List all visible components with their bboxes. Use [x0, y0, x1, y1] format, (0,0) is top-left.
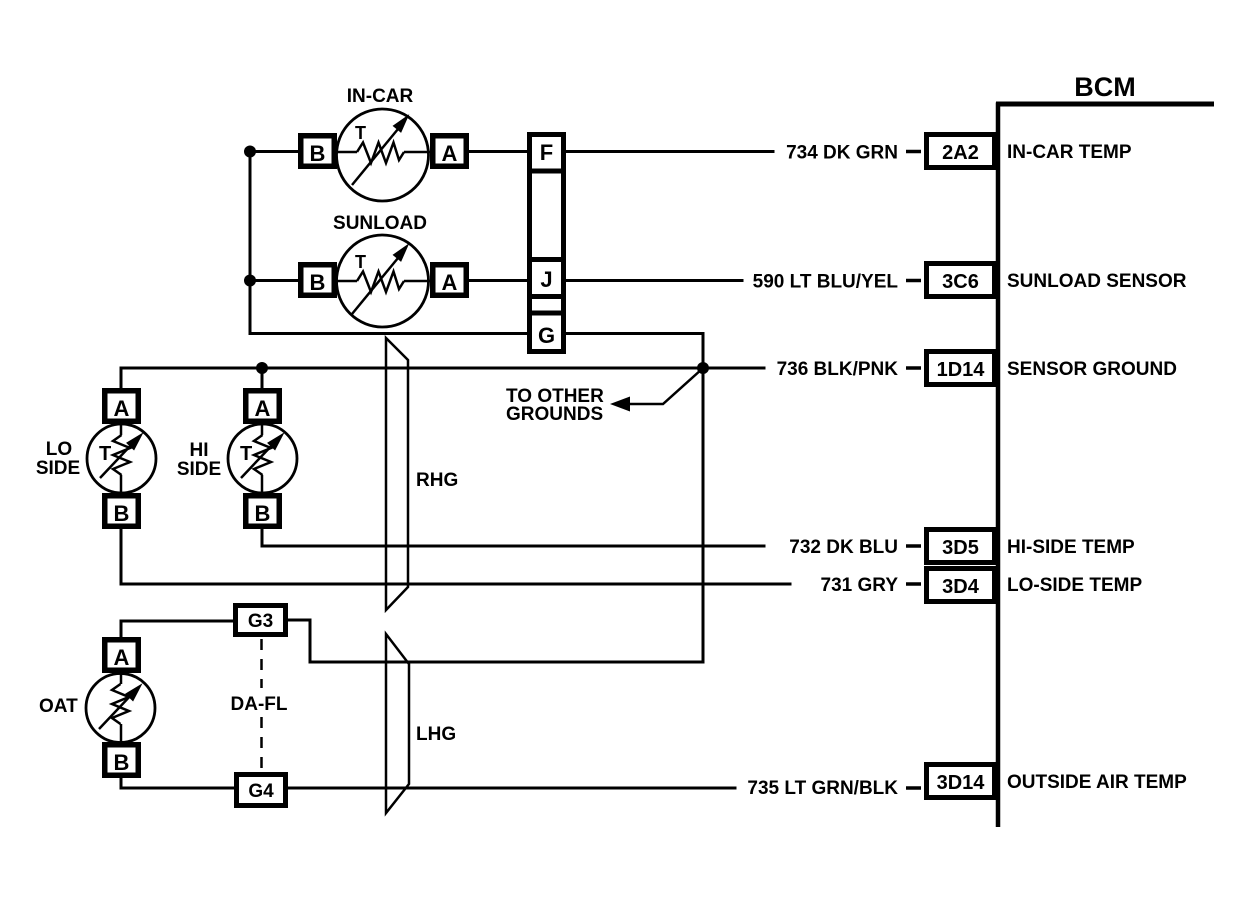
grommet RHG	[386, 338, 458, 610]
svg-text:590 LT BLU/YEL: 590 LT BLU/YEL	[753, 272, 899, 293]
svg-text:3C6: 3C6	[942, 271, 979, 293]
svg-text:SENSOR GROUND: SENSOR GROUND	[1007, 359, 1177, 380]
junction: sensor ground bus / ground drop	[697, 362, 709, 374]
wire: OAT pin A up to splice G3	[121, 621, 235, 639]
svg-text:OUTSIDE AIR TEMP: OUTSIDE AIR TEMP	[1007, 772, 1187, 793]
terminal A of SUNLOAD sensor	[433, 265, 467, 296]
wire: ground bus from IN-CAR B down to connector G	[250, 152, 527, 334]
svg-text:T: T	[355, 123, 366, 143]
svg-text:J: J	[540, 267, 552, 292]
svg-text:T: T	[240, 443, 252, 465]
dash before 2A2	[906, 150, 921, 154]
wire: circuit 736 from connector G right, down and to G3 branch	[310, 334, 703, 663]
svg-text:G: G	[538, 323, 555, 348]
wire: IN-CAR pin A to connector F	[467, 150, 529, 153]
svg-text:736 BLK/PNK: 736 BLK/PNK	[777, 359, 899, 380]
BCM terminal 3D4	[927, 569, 995, 602]
thermistor LO SIDE temperature sensor	[36, 424, 156, 493]
svg-text:735 LT GRN/BLK: 735 LT GRN/BLK	[747, 778, 898, 799]
thermistor OAT outside air temperature sensor	[39, 673, 155, 743]
terminal A of HI SIDE sensor	[246, 391, 280, 422]
svg-text:B: B	[114, 750, 130, 775]
svg-text:T: T	[99, 443, 111, 465]
svg-text:SIDE: SIDE	[36, 458, 80, 479]
svg-text:F: F	[540, 140, 553, 165]
grommet LHG	[386, 634, 456, 813]
svg-text:A: A	[114, 645, 130, 670]
wire: circuit 731 from LO-SIDE pin B to BCM 3D4	[121, 527, 790, 584]
svg-text:IN-CAR: IN-CAR	[347, 86, 414, 107]
svg-text:IN-CAR TEMP: IN-CAR TEMP	[1007, 142, 1132, 163]
svg-text:HI: HI	[190, 440, 209, 461]
svg-text:732 DK BLU: 732 DK BLU	[789, 537, 898, 558]
wire: sensor ground bus 736 to BCM 1D14	[121, 368, 764, 390]
terminal B of HI SIDE sensor	[246, 496, 280, 527]
dashed link DA-FL between G3 and G4	[231, 639, 288, 770]
dash before 3D4	[906, 582, 921, 586]
dash before 3D5	[906, 544, 921, 548]
terminal B of IN-CAR sensor	[301, 136, 335, 167]
BCM terminal 2A2	[927, 135, 995, 168]
svg-text:G4: G4	[248, 781, 274, 802]
dash before 3D14	[906, 786, 921, 790]
svg-text:B: B	[310, 141, 326, 166]
svg-text:LO-SIDE TEMP: LO-SIDE TEMP	[1007, 575, 1142, 596]
thermistor IN-CAR temperature sensor	[337, 86, 431, 201]
svg-text:3D14: 3D14	[937, 772, 986, 794]
terminal B of OAT sensor	[105, 745, 139, 776]
dash before 1D14	[906, 366, 921, 370]
terminal B of SUNLOAD sensor	[301, 265, 335, 296]
svg-text:B: B	[114, 501, 130, 526]
svg-text:G3: G3	[248, 611, 273, 632]
svg-text:GROUNDS: GROUNDS	[506, 404, 603, 425]
wire: HI-SIDE pin A stub to sensor ground bus	[261, 368, 264, 390]
thermistor HI SIDE temperature sensor	[177, 424, 297, 493]
svg-text:LHG: LHG	[416, 724, 456, 745]
wire: circuit 735 from OAT pin B through G4 to BCM 3D14	[121, 776, 735, 788]
svg-text:SUNLOAD SENSOR: SUNLOAD SENSOR	[1007, 271, 1187, 292]
svg-text:3D4: 3D4	[942, 576, 980, 598]
terminal A of LO SIDE sensor	[105, 391, 139, 422]
wire: circuit 590 from connector J to BCM 3C6	[564, 279, 742, 282]
svg-text:A: A	[255, 396, 271, 421]
svg-text:A: A	[114, 396, 130, 421]
svg-text:731 GRY: 731 GRY	[821, 575, 899, 596]
wire: SUNLOAD pin B to ground bus	[250, 279, 300, 282]
svg-text:SUNLOAD: SUNLOAD	[333, 213, 427, 234]
svg-text:1D14: 1D14	[937, 359, 986, 381]
wire: SUNLOAD pin A to connector J	[467, 279, 529, 282]
connector column with terminals F, J, G	[530, 135, 564, 352]
terminal A of OAT sensor	[105, 640, 139, 671]
svg-text:HI-SIDE TEMP: HI-SIDE TEMP	[1007, 537, 1135, 558]
svg-text:SIDE: SIDE	[177, 459, 221, 480]
BCM terminal 1D14	[927, 352, 995, 385]
svg-text:LO: LO	[46, 439, 72, 460]
terminal B of LO SIDE sensor	[105, 496, 139, 527]
svg-text:734 DK GRN: 734 DK GRN	[786, 143, 898, 164]
BCM terminal 3D14	[927, 765, 995, 798]
svg-text:A: A	[442, 141, 458, 166]
dash before 3C6	[906, 279, 921, 283]
svg-text:DA-FL: DA-FL	[231, 694, 288, 715]
svg-text:3D5: 3D5	[942, 537, 979, 559]
svg-text:B: B	[310, 270, 326, 295]
wire: splice G3 right to ground drop	[286, 620, 310, 662]
splice G4	[237, 775, 286, 806]
wire: circuit 734 from connector F to BCM 2A2	[564, 150, 773, 153]
terminal A of IN-CAR sensor	[433, 136, 467, 167]
svg-text:OAT: OAT	[39, 696, 78, 717]
BCM terminal 3D5	[927, 530, 995, 563]
svg-text:BCM: BCM	[1074, 72, 1136, 102]
svg-text:T: T	[355, 252, 366, 272]
BCM terminal 3C6	[927, 264, 995, 297]
svg-text:A: A	[442, 270, 458, 295]
note: TO OTHER GROUNDS with arrow	[506, 369, 702, 425]
junction: IN-CAR B / ground bus	[244, 146, 256, 158]
svg-text:B: B	[255, 501, 271, 526]
thermistor SUNLOAD sensor	[333, 213, 430, 327]
splice G3	[236, 606, 286, 635]
svg-text:2A2: 2A2	[942, 142, 979, 164]
junction: HI-SIDE A / sensor ground bus	[256, 362, 268, 374]
svg-text:RHG: RHG	[416, 470, 458, 491]
wire: circuit 732 from HI-SIDE pin B to BCM 3D5	[262, 527, 764, 546]
BCM module boundary	[996, 72, 1214, 827]
junction: SUNLOAD B / ground bus	[244, 275, 256, 287]
wire: IN-CAR pin B to ground bus	[250, 150, 300, 153]
